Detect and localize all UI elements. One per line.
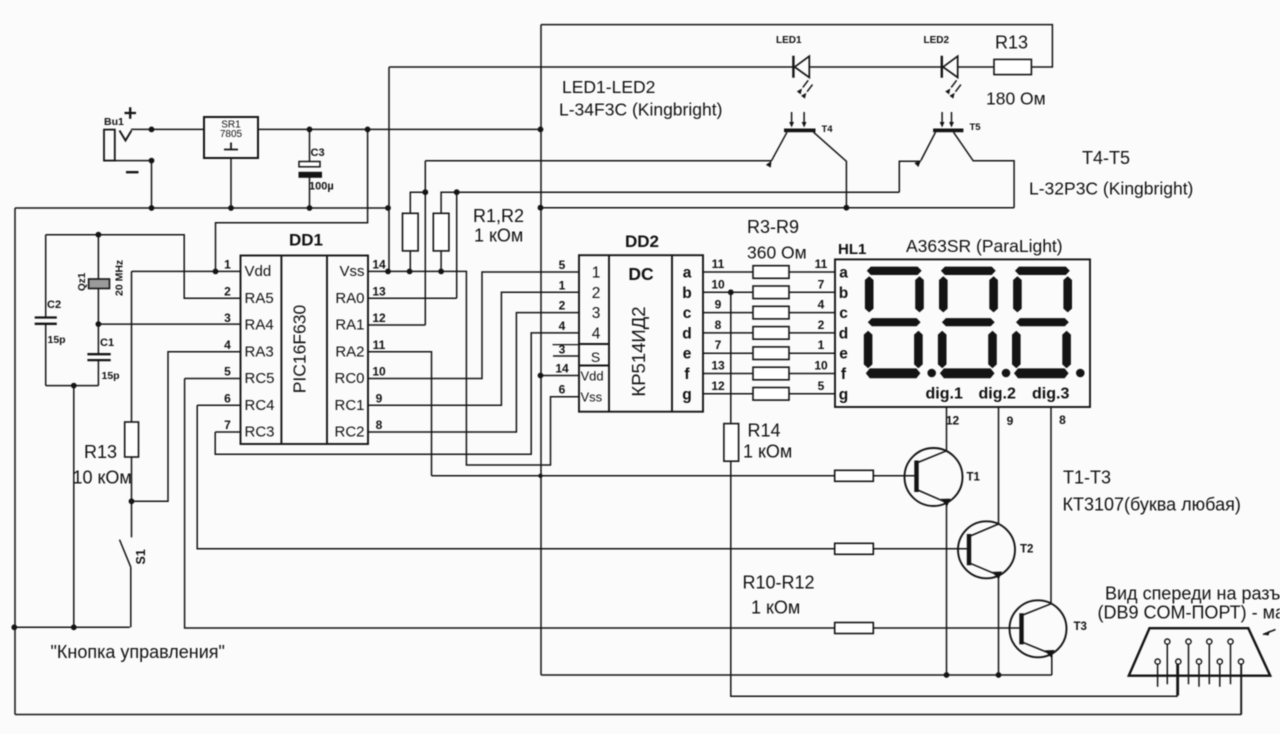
- svg-text:9: 9: [376, 391, 383, 405]
- svg-text:1: 1: [818, 338, 825, 352]
- svg-text:d: d: [839, 325, 848, 342]
- svg-text:13: 13: [372, 284, 386, 298]
- svg-text:C3: C3: [311, 147, 325, 159]
- svg-text:LED1-LED2: LED1-LED2: [562, 77, 655, 97]
- svg-text:C1: C1: [100, 337, 114, 349]
- svg-text:C2: C2: [47, 299, 61, 311]
- svg-text:RA5: RA5: [245, 290, 274, 307]
- svg-text:RC4: RC4: [245, 397, 275, 414]
- svg-text:15p: 15p: [102, 370, 120, 382]
- svg-text:15p: 15p: [48, 334, 66, 346]
- svg-text:8: 8: [715, 318, 722, 332]
- svg-text:Vdd: Vdd: [245, 263, 272, 280]
- svg-text:T4-T5: T4-T5: [1082, 148, 1130, 168]
- svg-text:RC5: RC5: [245, 370, 275, 387]
- svg-text:14: 14: [555, 362, 569, 376]
- svg-text:R13: R13: [995, 33, 1028, 53]
- svg-text:"Кнопка управления": "Кнопка управления": [51, 642, 225, 662]
- svg-text:LED1: LED1: [776, 35, 802, 46]
- svg-text:5: 5: [224, 365, 231, 379]
- svg-text:L-34F3C (Kingbright): L-34F3C (Kingbright): [559, 100, 722, 120]
- svg-text:4: 4: [592, 325, 601, 342]
- svg-text:c: c: [683, 305, 692, 322]
- svg-text:T1-T3: T1-T3: [1063, 468, 1111, 488]
- svg-text:a: a: [683, 265, 692, 282]
- svg-text:RC2: RC2: [334, 424, 364, 441]
- svg-text:RA4: RA4: [245, 317, 274, 334]
- svg-text:RA0: RA0: [335, 290, 364, 307]
- svg-text:7: 7: [715, 338, 722, 352]
- svg-text:КР514ИД2: КР514ИД2: [628, 306, 649, 396]
- svg-text:e: e: [683, 346, 692, 363]
- svg-text:8: 8: [376, 418, 383, 432]
- svg-text:dig.1: dig.1: [926, 386, 963, 403]
- svg-text:20 MHz: 20 MHz: [114, 260, 126, 296]
- svg-text:DC: DC: [628, 264, 654, 284]
- svg-text:11: 11: [373, 338, 386, 352]
- svg-text:b: b: [682, 285, 691, 302]
- svg-text:10: 10: [711, 277, 725, 291]
- svg-text:7: 7: [224, 418, 231, 432]
- svg-text:1 кОм: 1 кОм: [751, 598, 800, 618]
- svg-text:Vss: Vss: [581, 390, 603, 405]
- svg-text:LED2: LED2: [924, 35, 950, 46]
- svg-text:Вид спереди на разъем: Вид спереди на разъем: [1105, 584, 1280, 604]
- svg-text:DD1: DD1: [289, 231, 323, 250]
- svg-text:100µ: 100µ: [309, 181, 334, 193]
- svg-text:S1: S1: [134, 549, 148, 564]
- svg-text:e: e: [839, 346, 848, 363]
- svg-text:2: 2: [559, 299, 566, 313]
- svg-text:R14: R14: [748, 421, 781, 441]
- svg-text:Bu1: Bu1: [104, 116, 124, 128]
- svg-text:8: 8: [1059, 413, 1066, 427]
- svg-text:RC0: RC0: [334, 370, 364, 387]
- svg-text:c: c: [839, 305, 848, 322]
- svg-text:9: 9: [1007, 414, 1014, 428]
- svg-text:9: 9: [715, 298, 722, 312]
- svg-text:2: 2: [818, 318, 825, 332]
- svg-text:360 Ом: 360 Ом: [747, 243, 807, 263]
- svg-text:RA1: RA1: [335, 317, 364, 334]
- svg-text:dig.2: dig.2: [979, 386, 1016, 403]
- svg-text:T1: T1: [967, 472, 981, 484]
- svg-text:7: 7: [818, 277, 825, 291]
- svg-text:S: S: [591, 349, 600, 365]
- svg-text:L-32P3C (Kingbright): L-32P3C (Kingbright): [1029, 179, 1193, 199]
- svg-text:5: 5: [818, 379, 825, 393]
- svg-text:Vss: Vss: [339, 263, 364, 280]
- svg-text:g: g: [839, 386, 848, 403]
- svg-text:g: g: [682, 386, 691, 403]
- svg-text:dig.3: dig.3: [1032, 386, 1069, 403]
- svg-text:Т3: Т3: [1074, 621, 1087, 633]
- svg-text:КТ3107(буква любая): КТ3107(буква любая): [1063, 495, 1241, 515]
- svg-text:10: 10: [814, 359, 828, 373]
- svg-text:R1,R2: R1,R2: [473, 206, 524, 226]
- svg-text:4: 4: [559, 319, 566, 333]
- svg-text:10: 10: [372, 365, 386, 379]
- svg-text:Т5: Т5: [970, 122, 982, 133]
- svg-text:11: 11: [815, 257, 828, 271]
- svg-text:R13: R13: [84, 442, 117, 462]
- svg-text:6: 6: [224, 391, 231, 405]
- svg-text:10 кОм: 10 кОм: [73, 468, 132, 488]
- svg-text:HL1: HL1: [838, 241, 866, 258]
- svg-text:PIC16F630: PIC16F630: [290, 304, 310, 393]
- svg-text:7805: 7805: [220, 129, 243, 140]
- svg-text:11: 11: [712, 257, 725, 271]
- svg-text:12: 12: [946, 414, 960, 428]
- svg-text:1: 1: [592, 265, 601, 282]
- svg-text:f: f: [684, 366, 690, 383]
- svg-text:RC3: RC3: [245, 424, 275, 441]
- svg-text:4: 4: [818, 298, 825, 312]
- svg-text:R3-R9: R3-R9: [747, 217, 799, 237]
- svg-text:d: d: [682, 325, 691, 342]
- svg-text:f: f: [841, 366, 847, 383]
- svg-text:5: 5: [559, 258, 566, 272]
- svg-text:3: 3: [224, 311, 231, 325]
- svg-text:(DB9 COM-ПОРТ) - мама: (DB9 COM-ПОРТ) - мама: [1098, 603, 1280, 623]
- svg-text:1 кОм: 1 кОм: [474, 226, 523, 246]
- svg-text:2: 2: [224, 284, 231, 298]
- svg-text:1: 1: [224, 257, 231, 271]
- svg-text:Qz1: Qz1: [77, 272, 88, 291]
- svg-text:12: 12: [711, 379, 725, 393]
- svg-text:4: 4: [224, 338, 231, 352]
- svg-text:6: 6: [559, 383, 566, 397]
- svg-text:A363SR (ParaLight): A363SR (ParaLight): [906, 236, 1063, 256]
- svg-text:3: 3: [559, 343, 566, 357]
- svg-text:12: 12: [372, 311, 386, 325]
- svg-text:Т4: Т4: [822, 124, 834, 135]
- svg-text:180 Ом: 180 Ом: [986, 89, 1046, 109]
- svg-text:RC1: RC1: [334, 397, 364, 414]
- svg-text:R10-R12: R10-R12: [743, 573, 815, 593]
- svg-text:a: a: [839, 265, 848, 282]
- svg-text:3: 3: [592, 305, 601, 322]
- svg-text:DD2: DD2: [625, 232, 659, 251]
- svg-text:13: 13: [711, 359, 725, 373]
- svg-text:2: 2: [592, 285, 601, 302]
- svg-text:T2: T2: [1020, 544, 1033, 556]
- svg-text:1: 1: [559, 278, 566, 292]
- svg-text:Vdd: Vdd: [581, 369, 604, 384]
- svg-text:RA3: RA3: [245, 343, 274, 360]
- svg-text:RA2: RA2: [335, 343, 364, 360]
- svg-text:14: 14: [372, 257, 386, 271]
- svg-text:b: b: [839, 285, 848, 302]
- svg-text:1 кОм: 1 кОм: [743, 442, 792, 462]
